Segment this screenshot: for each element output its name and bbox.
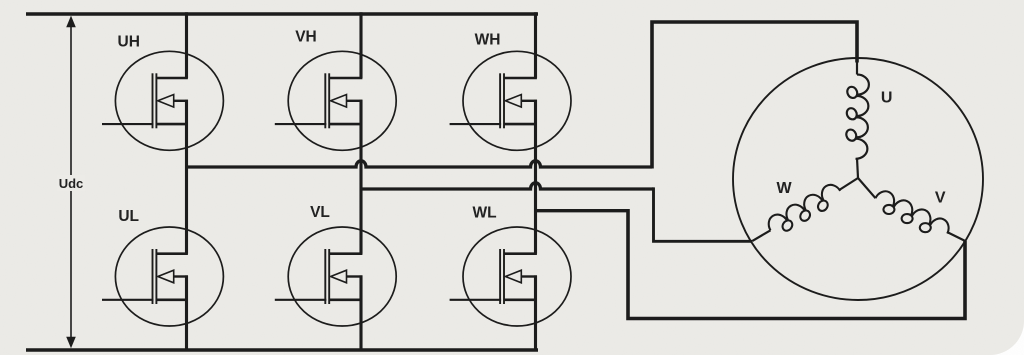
V phase route down bbox=[654, 187, 753, 241]
wire V coil to circle edge bbox=[947, 232, 965, 241]
svg-text:UL: UL bbox=[118, 208, 139, 225]
V phase output wire (with hop over W leg) bbox=[361, 183, 654, 189]
transistor VL bbox=[275, 227, 396, 326]
svg-text:V: V bbox=[935, 190, 946, 207]
W half-bridge leg wire bbox=[534, 12, 537, 350]
svg-text:UH: UH bbox=[118, 34, 140, 51]
winding W (coil) bbox=[765, 180, 845, 239]
wire U coil to star point bbox=[857, 158, 858, 178]
svg-text:Udc: Udc bbox=[59, 176, 84, 191]
wire U feed into coil bbox=[856, 62, 858, 75]
U phase route to motor bbox=[652, 22, 857, 169]
Udc measure arrow bbox=[66, 16, 76, 349]
winding U (coil) bbox=[846, 75, 869, 159]
svg-text:WL: WL bbox=[472, 204, 496, 221]
transistor WL bbox=[450, 227, 571, 326]
U half-bridge leg wire bbox=[185, 12, 188, 350]
svg-text:VL: VL bbox=[310, 204, 330, 221]
transistor UH bbox=[102, 51, 223, 150]
svg-text:WH: WH bbox=[475, 32, 501, 49]
W phase route along bottom to motor bbox=[628, 209, 965, 319]
transistor UL bbox=[102, 227, 223, 326]
svg-text:U: U bbox=[881, 90, 893, 107]
node star point bbox=[840, 178, 876, 198]
transistor WH bbox=[450, 51, 571, 150]
svg-text:VH: VH bbox=[295, 28, 317, 45]
W phase output wire bbox=[536, 209, 629, 212]
transistor VH bbox=[275, 51, 396, 150]
wire W coil to circle edge bbox=[752, 230, 770, 241]
svg-text:W: W bbox=[776, 180, 792, 197]
top DC bus rail bbox=[26, 12, 538, 16]
winding V (coil) bbox=[871, 188, 953, 241]
bottom DC bus rail bbox=[26, 348, 538, 352]
U phase output wire (with hops over V and W legs) bbox=[185, 161, 652, 167]
label Udc bbox=[57, 175, 85, 191]
V half-bridge leg wire bbox=[359, 12, 362, 350]
motor circle M bbox=[733, 58, 983, 300]
